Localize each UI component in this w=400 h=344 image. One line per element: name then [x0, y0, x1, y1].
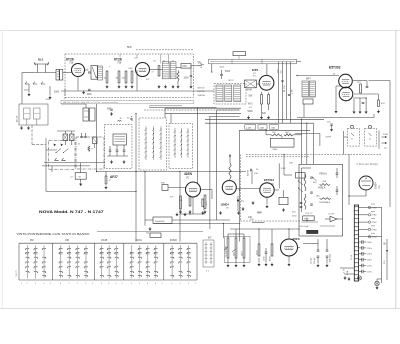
svg-text:2-8: 2-8 — [153, 61, 156, 63]
svg-text:12P1: 12P1 — [252, 68, 259, 72]
osc caps — [80, 136, 82, 138]
capacitor disc — [190, 75, 192, 77]
switch column 16 — [179, 245, 181, 278]
wire T1 to V1 grid — [63, 72, 72, 74]
capacitor ELPM — [250, 169, 252, 172]
svg-text:5TR2: 5TR2 — [372, 229, 378, 231]
dashed link line — [144, 109, 240, 111]
svg-text:MA 50µF: MA 50µF — [328, 253, 331, 262]
grounds — [227, 264, 229, 267]
V2 anode load — [158, 66, 160, 77]
tube V6 12MD4 — [222, 181, 236, 195]
ground — [105, 186, 107, 189]
capacitor near V3 — [281, 80, 283, 82]
coil 36 — [118, 120, 122, 121]
svg-text:C3Pa: C3Pa — [367, 260, 373, 262]
svg-text:1: 1 — [92, 283, 93, 285]
wire — [251, 170, 253, 184]
upper dashed stub — [136, 49, 193, 51]
wire — [107, 155, 128, 157]
svg-text:OC31: OC31 — [136, 239, 143, 242]
wire to output — [298, 247, 301, 249]
keyboard top rail — [19, 242, 197, 244]
ground — [344, 276, 346, 279]
wire bus — [239, 129, 310, 131]
osc switch levers — [56, 149, 61, 153]
page edge right — [395, 31, 397, 309]
cathode resistor 450 — [258, 244, 260, 256]
wire — [306, 123, 308, 164]
svg-text:T3.19: T3.19 — [351, 254, 353, 260]
grounds — [179, 210, 181, 213]
left divider resistors — [304, 174, 306, 192]
grounds — [242, 207, 244, 210]
svg-text:AT10A: AT10A — [16, 115, 19, 122]
osc wire — [46, 149, 56, 151]
discriminator box 2T0 — [181, 64, 191, 69]
terminal 5TR2 — [359, 228, 368, 230]
svg-text:50K: 50K — [249, 96, 254, 98]
wire — [301, 168, 303, 212]
switch column 5 — [68, 245, 70, 278]
svg-text:C1Pa: C1Pa — [367, 271, 373, 273]
power transformer small — [83, 108, 89, 121]
oscillator screen box FM (dash-dot) — [49, 141, 76, 170]
svg-text:1: 1 — [131, 283, 132, 285]
wire horizontal y116 — [209, 116, 240, 118]
page edge bottom — [0, 308, 400, 310]
svg-text:P10B: P10B — [383, 134, 389, 136]
wire — [145, 219, 153, 221]
chassis line AF27 — [97, 171, 247, 173]
wire left rail — [96, 104, 98, 172]
ground — [376, 286, 378, 289]
svg-text:1000: 1000 — [184, 77, 190, 79]
svg-text:AF27: AF27 — [110, 175, 118, 179]
wire right — [283, 155, 285, 176]
osc resistor — [88, 146, 90, 152]
svg-text:5an: 5an — [384, 148, 387, 150]
ground — [20, 126, 22, 129]
wire eye feed — [348, 154, 350, 205]
svg-text:10K: 10K — [248, 217, 253, 219]
osc arrows — [54, 144, 57, 147]
wire — [201, 189, 213, 191]
svg-text:5: 5 — [116, 283, 117, 285]
svg-text:2: 2 — [35, 283, 36, 285]
phono jack 2 (dashed) — [365, 128, 377, 146]
wire top bus — [297, 61, 302, 63]
ground — [176, 213, 178, 216]
oscillator screen box AM (dash-dot) — [76, 137, 104, 169]
svg-text:6,7V: 6,7V — [344, 268, 346, 273]
wire long — [97, 230, 203, 232]
ground — [219, 211, 221, 214]
svg-text:1: 1 — [50, 283, 51, 285]
ground — [348, 277, 350, 280]
magic eye tube EM34 — [359, 176, 373, 190]
junction dots — [96, 171, 97, 172]
wire — [288, 229, 290, 239]
resistor R6 zigzag — [177, 71, 179, 82]
wires — [317, 239, 319, 250]
switch column 15 — [171, 245, 173, 278]
grounds V4 area — [335, 110, 337, 113]
heater wires — [340, 267, 354, 269]
electrolytic caps — [317, 249, 320, 251]
svg-text:5000: 5000 — [225, 71, 231, 73]
capacitor C9 — [366, 86, 369, 88]
terminal 4TR7 — [359, 221, 368, 223]
wire feeder extension — [287, 118, 325, 120]
svg-text:1: 1 — [180, 283, 181, 285]
svg-text:M7 F7: M7 F7 — [229, 80, 234, 82]
tube V2 6T26 — [136, 63, 150, 77]
svg-text:6.3V 50µF: 6.3V 50µF — [300, 226, 310, 228]
svg-text:A00V: A00V — [269, 255, 272, 261]
svg-text:10K: 10K — [254, 173, 258, 175]
AM tuning unit box (dashed) — [139, 118, 167, 170]
wire jacks right — [378, 130, 380, 148]
svg-text:6,3A: 6,3A — [346, 270, 349, 275]
ground — [49, 96, 51, 99]
wire antenna down — [21, 73, 23, 105]
osc trimmer 3 — [93, 137, 98, 144]
svg-text:4VTR: 4VTR — [326, 137, 332, 139]
svg-text:36: 36 — [120, 118, 122, 120]
wire frame left — [45, 138, 47, 191]
svg-text:ELPM: ELPM — [247, 170, 249, 176]
IF transformer FM1 — [162, 62, 169, 79]
svg-text:3: 3 — [101, 283, 102, 285]
svg-text:47K: 47K — [381, 103, 385, 105]
resistor — [271, 244, 273, 256]
section dividers — [18, 243, 20, 280]
volume pot enclosure — [225, 237, 251, 263]
wire — [230, 228, 300, 230]
INT switch group — [203, 240, 214, 267]
wire v7 plate up — [278, 163, 280, 188]
svg-text:TV VOLUME: TV VOLUME — [226, 245, 228, 257]
svg-text:1: 1 — [195, 283, 196, 285]
FM tuning unit box (dashed) — [105, 125, 133, 169]
gang capacitor contacts 1 — [145, 128, 146, 129]
wire pair to AM section — [165, 107, 241, 109]
svg-text:2: 2 — [139, 283, 140, 285]
input transformer T1 — [56, 70, 59, 81]
svg-text:NM 505: NM 505 — [198, 88, 206, 90]
resistor R11 4.7K — [378, 100, 380, 107]
svg-text:INT: INT — [208, 238, 212, 240]
wire horizontal y110 — [217, 109, 240, 111]
svg-text:P6RLA: P6RLA — [318, 187, 326, 190]
svg-text:1.2K: 1.2K — [292, 89, 294, 94]
ground — [27, 126, 29, 129]
wire down — [144, 172, 146, 226]
IF can AM3 — [234, 85, 241, 102]
jack arrows — [382, 137, 387, 143]
svg-text:14A 52A: 14A 52A — [198, 94, 206, 97]
wire plate to B+ rail — [369, 80, 391, 82]
oscillator coil box NAM — [245, 80, 257, 88]
svg-text:1.2M: 1.2M — [246, 127, 251, 129]
svg-text:7S6: 7S6 — [69, 62, 74, 65]
svg-text:35F6: 35F6 — [293, 237, 300, 241]
top bus labels in boxes — [245, 125, 256, 130]
ground — [28, 93, 30, 96]
wire — [85, 104, 87, 108]
wire vertical x197 — [197, 107, 199, 183]
svg-text:VISTA POSTERIORE CON TASTI IN: VISTA POSTERIORE CON TASTI IN BASSO — [17, 232, 90, 236]
ground — [184, 213, 186, 216]
ground — [190, 85, 192, 88]
wire to V4 — [297, 75, 339, 77]
wire — [80, 163, 82, 173]
wire — [365, 190, 367, 196]
ladder capacitor 1 — [359, 241, 362, 243]
resistor R10 — [360, 84, 362, 93]
phono jack 1 (dashed) — [348, 128, 360, 146]
wire — [236, 188, 259, 190]
IF transformer FM2 — [170, 62, 176, 79]
wire — [266, 197, 268, 204]
svg-text:3: 3 — [147, 283, 148, 285]
tube V8 35FE — [281, 239, 298, 256]
padder box 52 — [75, 173, 86, 180]
OM-OC unit box (dashed) — [169, 124, 193, 169]
pilot lamp 2 — [375, 281, 379, 285]
wires pots — [227, 258, 229, 263]
ladder capacitor 6 — [359, 271, 362, 273]
switch column 13 — [147, 245, 149, 278]
svg-text:50: 50 — [78, 144, 80, 146]
ground — [288, 263, 290, 266]
page edge left — [1, 31, 3, 309]
capacitor C2 — [88, 88, 91, 90]
terminal 3TR2 — [359, 214, 368, 216]
band switch contacts — [25, 82, 45, 85]
switch column 17 — [188, 245, 190, 278]
svg-text:2: 2 — [85, 283, 86, 285]
terminal strip bar — [354, 205, 358, 281]
wire down — [179, 172, 181, 242]
switch contact — [313, 178, 317, 182]
switch column 10 — [115, 245, 117, 278]
ground — [149, 227, 151, 230]
wire — [386, 239, 388, 280]
svg-text:3: 3 — [43, 283, 44, 285]
wire — [228, 233, 244, 235]
detector dashed line 2 — [246, 156, 310, 158]
IF can AM1 — [216, 85, 223, 102]
antenna BL2 — [34, 62, 49, 68]
resistor R8 — [261, 95, 263, 105]
wire — [353, 99, 355, 110]
svg-text:52K: 52K — [262, 113, 267, 115]
line vertical 3 — [286, 62, 288, 120]
ground — [110, 160, 112, 163]
ground — [330, 128, 332, 131]
ladder capacitor 3 — [359, 253, 362, 255]
wire — [312, 123, 314, 164]
terminal 2TR1 — [359, 207, 368, 209]
wire — [258, 229, 260, 244]
wire IF out — [176, 67, 181, 69]
wire — [336, 85, 341, 87]
wire — [389, 154, 391, 207]
V5 cathode resistors — [180, 196, 182, 209]
svg-text:1000: 1000 — [87, 94, 93, 96]
svg-text:220 µF: 220 µF — [314, 257, 316, 264]
switch column 2 — [35, 245, 37, 278]
svg-text:NM 505 - N.M 506 - Mod. FM c.: NM 505 - N.M 506 - Mod. FM c.s. 10.7 Mc … — [63, 101, 118, 104]
ground — [125, 85, 127, 88]
ground — [110, 112, 112, 115]
AM antenna ferrite rod — [209, 59, 297, 64]
svg-text:8: 8 — [173, 61, 174, 63]
oscillator trimmer FM — [63, 134, 68, 141]
wire — [168, 187, 186, 189]
wire vertical x216 — [216, 110, 218, 220]
oscillator trimmer AM — [70, 134, 75, 141]
wire — [376, 279, 378, 281]
svg-text:7S6: 7S6 — [117, 61, 122, 64]
switch column 14 — [155, 245, 157, 278]
ground — [131, 85, 133, 88]
svg-text:2: 2 — [188, 283, 189, 285]
svg-text:5000: 5000 — [129, 68, 133, 70]
fuse box 50mA — [153, 217, 172, 224]
tone resistor 1 (horizontal) — [320, 184, 331, 186]
switch column 7 — [85, 245, 87, 278]
long vertical feed — [238, 130, 240, 241]
svg-text:Il Solo per Modgl: Il Solo per Modgl — [357, 162, 378, 166]
wire — [354, 93, 378, 95]
tube V7 E5T312 — [260, 183, 274, 197]
wire — [51, 166, 53, 172]
svg-text:1: 1 — [77, 283, 78, 285]
svg-text:5: 5 — [171, 283, 172, 285]
wire bus upper — [61, 90, 214, 92]
gang capacitor contacts 2 — [174, 130, 175, 131]
divider caps — [310, 176, 313, 178]
resistor row R20 R21 — [271, 134, 282, 136]
ladder capacitor 2 — [359, 247, 362, 249]
wire NAM to V3 — [256, 83, 259, 85]
svg-text:5F5: 5F5 — [127, 45, 132, 49]
wire — [49, 86, 51, 95]
strip top stubs — [119, 54, 121, 57]
hatched power resistor — [307, 230, 319, 233]
wire osc — [64, 131, 66, 134]
switch column 12 — [139, 245, 141, 278]
label band NM505-NM506 — [61, 100, 194, 104]
svg-text:D.Tr: D.Tr — [384, 260, 386, 264]
svg-text:OM: OM — [65, 239, 69, 242]
switch column 9 — [108, 245, 110, 278]
ground — [80, 182, 82, 185]
resistor R22 — [229, 163, 231, 179]
keyboard bottom rail — [19, 279, 197, 281]
wire down to keyboard — [135, 114, 137, 242]
wire arrow feed — [229, 154, 231, 163]
AM IF unit (dashed) — [214, 84, 246, 105]
ground — [326, 264, 328, 267]
IF can AM2 — [225, 85, 232, 102]
svg-text:4TR7: 4TR7 — [372, 222, 378, 224]
osc contacts — [55, 160, 59, 162]
tube V1 6T26 — [72, 64, 85, 77]
terminal 1TR4 — [359, 236, 368, 238]
wire V3 grid riser — [266, 64, 268, 75]
filter box 5600 — [270, 138, 294, 147]
svg-text:50mA 5W: 50mA 5W — [155, 220, 165, 223]
volume pot block — [227, 238, 229, 258]
svg-text:NAM: NAM — [247, 89, 252, 92]
junction wire down — [223, 224, 225, 239]
svg-text:4: 4 — [60, 283, 61, 285]
wire V4 plate — [353, 80, 367, 82]
decoupling resistors R1-R4 — [106, 71, 108, 83]
svg-text:E5T312: E5T312 — [264, 178, 275, 182]
bottom feeder wires — [205, 118, 287, 120]
svg-text:1: 1 — [21, 283, 22, 285]
switch column 1 — [26, 245, 28, 278]
mains filter box — [19, 104, 48, 125]
wire V2 to IF — [150, 69, 163, 71]
svg-text:C4Pa: C4Pa — [367, 254, 373, 256]
svg-text:100: 100 — [104, 78, 107, 80]
ground — [123, 160, 125, 163]
switch column 3 — [43, 245, 45, 278]
svg-text:6.3V: 6.3V — [201, 63, 203, 68]
svg-text:T A S T I: T A S T I — [15, 269, 18, 277]
coupling coil L3 — [98, 66, 103, 80]
svg-text:18K: 18K — [289, 163, 293, 165]
svg-text:BL2: BL2 — [38, 58, 44, 62]
svg-text:300: 300 — [122, 78, 125, 80]
wire main vertical right of tuner — [301, 119, 303, 164]
wire V3 cathode — [261, 92, 263, 95]
inner wires — [302, 221, 319, 223]
trimmer caps — [109, 149, 112, 151]
wire riser — [211, 64, 213, 72]
svg-text:NORMALE: NORMALE — [319, 201, 330, 204]
svg-text:1M S: 1M S — [242, 251, 244, 256]
svg-text:12M: 12M — [260, 127, 264, 129]
wire B+ right — [389, 118, 391, 155]
box left of bank2 — [150, 233, 161, 238]
coil 980 — [162, 185, 168, 191]
svg-text:5000: 5000 — [248, 111, 254, 113]
wire V2 grid down — [136, 70, 138, 91]
svg-text:41EN: 41EN — [184, 172, 193, 176]
capacitor C6 — [220, 74, 223, 76]
capacitor C500 — [330, 123, 333, 125]
capacitor small — [130, 118, 132, 120]
wire — [303, 243, 318, 245]
page edge top — [0, 30, 400, 32]
grounds — [258, 263, 260, 266]
svg-text:P6RLA: P6RLA — [319, 173, 327, 176]
tube V3 12P1 — [259, 75, 274, 90]
svg-text:3TR2: 3TR2 — [372, 215, 378, 217]
svg-text:9600: 9600 — [273, 149, 279, 151]
svg-text:C05 7.5: C05 7.5 — [305, 213, 313, 215]
ground — [158, 85, 160, 88]
svg-text:1: 1 — [162, 283, 163, 285]
svg-text:NM 506: NM 506 — [198, 91, 206, 93]
